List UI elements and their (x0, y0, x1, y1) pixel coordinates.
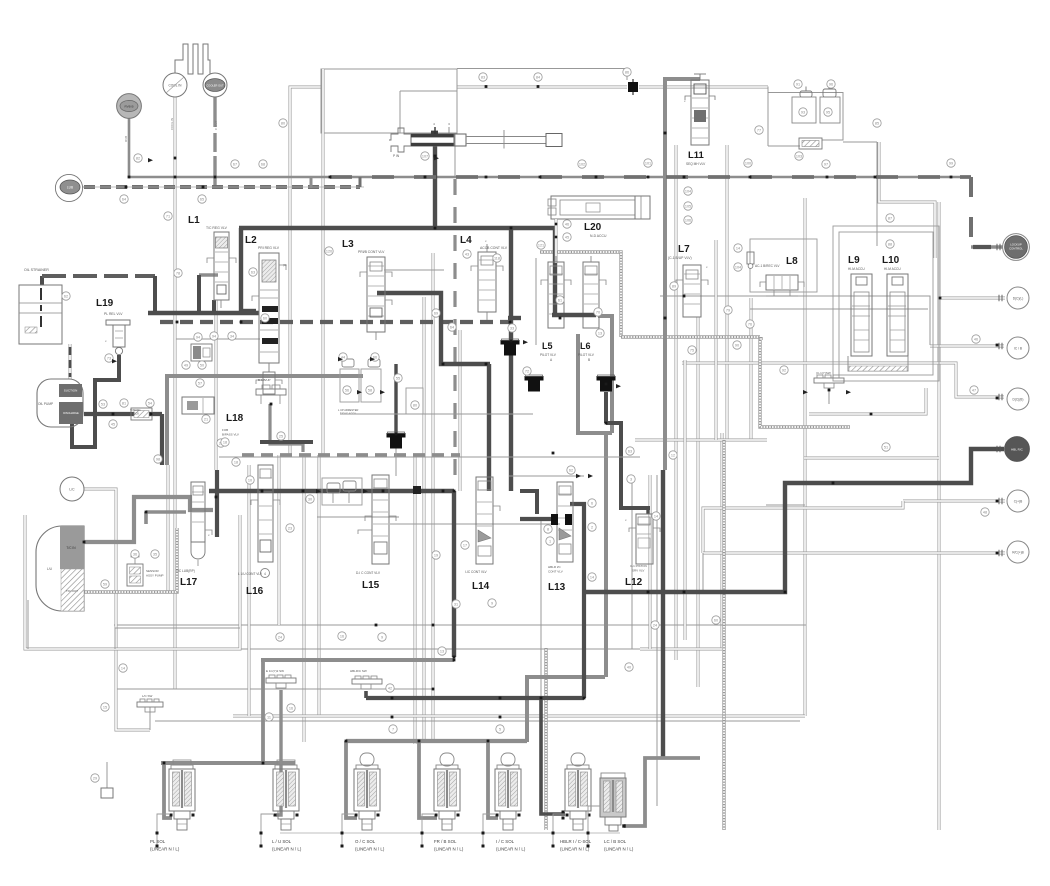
solenoid LC/B SOL (601, 773, 625, 778)
port D(C)(B) (1007, 388, 1029, 410)
svg-text:D(C)(B): D(C)(B) (1013, 398, 1024, 402)
svg-text:93: 93 (801, 111, 805, 115)
wire mid column x650 (649, 475, 652, 649)
svg-text:64: 64 (122, 198, 126, 202)
wire pilot gray vertical long (604, 433, 608, 677)
wire L11 right column (726, 145, 729, 440)
svg-text:103: 103 (796, 155, 802, 159)
svg-text:118: 118 (494, 257, 500, 261)
svg-text:RVB: RVB (124, 136, 128, 142)
accumulator L20 (551, 196, 650, 219)
svg-text:AC-1 B/REC VLV: AC-1 B/REC VLV (755, 264, 780, 268)
node port tick marks (996, 244, 998, 250)
svg-text:102: 102 (579, 163, 585, 167)
svg-text:85: 85 (875, 122, 879, 126)
svg-text:63: 63 (251, 271, 255, 275)
wire L9 feed from top right (876, 142, 878, 246)
wire center column B (423, 297, 426, 740)
svg-text:31: 31 (454, 603, 458, 607)
port C+B (1007, 490, 1029, 512)
wire bottom mid rail (117, 688, 433, 690)
wire T/C lower box (25, 515, 240, 649)
svg-text:46: 46 (565, 223, 569, 227)
svg-text:88: 88 (888, 243, 892, 247)
wire long bottom rail 2 (114, 624, 806, 626)
port LUB (55, 174, 82, 201)
svg-text:56: 56 (345, 389, 349, 393)
svg-text:L13: L13 (548, 582, 566, 593)
solenoid I/C SOL (501, 753, 515, 766)
wire HBL R/C main rail (584, 449, 1004, 592)
svg-text:10: 10 (248, 479, 252, 483)
svg-text:C(+)B: C(+)B (1014, 500, 1022, 504)
svg-text:13: 13 (440, 650, 444, 654)
svg-text:45: 45 (111, 423, 115, 427)
wire T/C secondary feed (146, 510, 186, 514)
wire pilot gray U bottom (576, 431, 612, 435)
svg-text:15: 15 (103, 706, 107, 710)
svg-text:78: 78 (176, 272, 180, 276)
svg-text:90: 90 (735, 344, 739, 348)
svg-text:2: 2 (591, 526, 593, 530)
wire T/C in feed (84, 497, 213, 542)
pump oil pump (37, 379, 83, 427)
svg-text:LUB: LUB (67, 186, 73, 190)
wire L/C circle line (84, 489, 150, 730)
svg-text:49: 49 (184, 364, 188, 368)
svg-text:14: 14 (590, 576, 594, 580)
svg-text:HBLR I/C: HBLR I/C (548, 565, 562, 569)
wire secondary reg dashed rail (160, 320, 510, 324)
node box upper-left of lockup relay (321, 69, 457, 133)
svg-text:PILOT VLV: PILOT VLV (578, 353, 595, 357)
wire D(C)(B) connector (682, 363, 1004, 397)
svg-text:4: 4 (264, 572, 266, 576)
wire lower-left rail (27, 600, 29, 649)
svg-text:100: 100 (745, 162, 751, 166)
wire L2 drain drop (197, 275, 201, 313)
wire right mid rail (809, 388, 926, 414)
cooler (175, 44, 210, 74)
wire L7 columns (675, 145, 678, 660)
node flow arrows (148, 158, 153, 162)
svg-text:11: 11 (267, 716, 271, 720)
svg-text:TOWING: TOWING (130, 408, 141, 412)
wire main pressure dark rail (239, 226, 555, 230)
svg-text:60: 60 (263, 317, 267, 321)
svg-text:83: 83 (481, 76, 485, 80)
port COOL IN (163, 73, 187, 97)
svg-text:82: 82 (136, 157, 140, 161)
wire line pressure drop (gray) (165, 374, 169, 465)
svg-text:14: 14 (121, 667, 125, 671)
valve L14 I-IC control (476, 477, 493, 564)
wire R/C+B connector (703, 552, 1005, 555)
svg-text:69: 69 (434, 312, 438, 316)
svg-text:79: 79 (726, 309, 730, 313)
plug L15 inlet (413, 486, 421, 494)
wire right enclosure edge (804, 198, 807, 716)
wire L16 top dark stub (260, 440, 313, 444)
svg-text:33: 33 (510, 327, 514, 331)
svg-text:77: 77 (757, 129, 761, 133)
svg-text:HI-M ACCU: HI-M ACCU (884, 267, 901, 271)
wire O/C sol drop (346, 741, 357, 818)
wire L1 drain (thick gray) (199, 273, 218, 277)
svg-text:62: 62 (64, 295, 68, 299)
svg-text:75: 75 (690, 349, 694, 353)
solenoid HBLR I/C-SOL (571, 753, 585, 766)
svg-text:60: 60 (714, 619, 718, 623)
svg-text:DISCHARGE: DISCHARGE (63, 411, 79, 415)
svg-text:71: 71 (166, 215, 170, 219)
wire LC/B staircase (gray) (624, 758, 700, 826)
wire mid column x685 (684, 360, 687, 640)
svg-text:43: 43 (465, 253, 469, 257)
svg-text:D(C)(L): D(C)(L) (1013, 297, 1024, 301)
svg-text:97: 97 (824, 163, 828, 167)
wire gray to sol bus elbow (527, 677, 605, 742)
wire pilot dark link (552, 313, 596, 317)
node L9/L10 enclosure inner (839, 232, 933, 375)
svg-text:6: 6 (591, 502, 593, 506)
wire L/C SW stem (149, 707, 151, 730)
svg-text:68: 68 (261, 163, 265, 167)
port COOLER OUT (203, 73, 227, 97)
svg-text:(3): (3) (283, 263, 287, 267)
svg-text:73: 73 (107, 357, 111, 361)
wire center column A (432, 253, 435, 742)
svg-text:HBL R/C: HBL R/C (1011, 448, 1024, 452)
svg-text:8: 8 (547, 528, 549, 532)
wire dark ladder right (553, 228, 557, 315)
wire lockup control connector (gray) (971, 245, 1003, 249)
wire HBLR SW stem (364, 691, 368, 698)
solenoid PL SOL (173, 760, 191, 765)
wire top supply line (290, 87, 321, 220)
node sensor assy pump (127, 564, 143, 586)
svg-text:(LINEAR N / L): (LINEAR N / L) (272, 847, 302, 852)
wire lockup relay valve drain (dark) (433, 146, 437, 228)
svg-text:18: 18 (234, 461, 238, 465)
wire sol area column (540, 520, 542, 698)
wire to top-right check valves (768, 87, 843, 141)
wire dark drop A (509, 228, 513, 491)
svg-text:L12: L12 (625, 577, 643, 588)
node accumulator sump tray (848, 356, 908, 371)
port I C/B (1007, 337, 1029, 359)
svg-text:46: 46 (974, 338, 978, 342)
svg-text:80: 80 (413, 404, 417, 408)
svg-text:99: 99 (949, 162, 953, 166)
svg-text:T/C REG VLV: T/C REG VLV (206, 226, 228, 230)
wire below plug P1 (395, 447, 397, 476)
svg-text:L6: L6 (580, 341, 591, 351)
svg-text:L20: L20 (584, 222, 602, 233)
wire hatched T/C out line (84, 528, 177, 592)
svg-text:62: 62 (569, 469, 573, 473)
wire L/U feed from gray elbow (261, 658, 265, 763)
svg-text:L14: L14 (472, 581, 490, 592)
wire cooler-in line (vertical) (174, 97, 177, 689)
wire hatched L8 column (759, 337, 762, 340)
svg-text:P IN: P IN (393, 154, 400, 158)
svg-text:L / U SOL: L / U SOL (272, 839, 292, 844)
wire E1C SW stem and L/U drop (276, 690, 281, 815)
svg-text:48: 48 (983, 511, 987, 515)
svg-text:SRV VLV: SRV VLV (632, 569, 644, 573)
wire mid thin rail y414 (340, 413, 533, 415)
valve L16 lockup control (258, 465, 273, 562)
valve L17 T/C lub (191, 482, 205, 542)
node L8 enclosure box (750, 239, 817, 292)
svg-text:L18: L18 (226, 413, 244, 424)
wire pri-reg column (303, 455, 306, 742)
wire L14 short dark (520, 491, 537, 514)
wire D(C)(L) connector (941, 297, 1005, 300)
svg-text:35: 35 (153, 553, 157, 557)
valve L1 T/C regulator (214, 232, 229, 300)
svg-text:92: 92 (782, 369, 786, 373)
wire solenoid supply bus left (161, 761, 295, 765)
svg-text:24: 24 (278, 636, 282, 640)
wire solenoid return rails (280, 832, 620, 834)
svg-text:CONT VLV: CONT VLV (548, 570, 563, 574)
wire right lower rail B (635, 439, 767, 442)
svg-text:L11: L11 (688, 150, 705, 161)
svg-text:17: 17 (463, 544, 467, 548)
svg-text:54: 54 (148, 402, 152, 406)
node check box 2 (820, 97, 840, 123)
svg-text:PL REL VLV: PL REL VLV (104, 312, 123, 316)
svg-text:L/C: L/C (69, 488, 75, 492)
svg-text:FOB: FOB (222, 428, 228, 432)
svg-text:104: 104 (735, 266, 741, 270)
svg-text:(LINEAR N / L): (LINEAR N / L) (604, 847, 634, 852)
plug top line (632, 79, 634, 95)
node L9/L10 enclosure outer (833, 226, 939, 381)
wire left box edge (289, 220, 292, 455)
wire rvb feed (128, 118, 131, 177)
wire bottom enclosure edge (233, 715, 805, 718)
wire C+B connector (903, 500, 1005, 503)
valve L2 lower plunger (263, 372, 275, 394)
valve L5 pilot A (548, 262, 564, 328)
wire PL sol drop (164, 763, 172, 818)
svg-text:O / C SOL: O / C SOL (355, 839, 376, 844)
valve L18 bypass (182, 397, 214, 414)
svg-text:101: 101 (645, 162, 651, 166)
wire L13 top feed (509, 475, 584, 477)
svg-text:T/C IN: T/C IN (66, 546, 76, 550)
svg-text:40: 40 (627, 666, 631, 670)
svg-text:9: 9 (491, 602, 493, 606)
svg-text:CHECK: CHECK (130, 412, 139, 416)
valve L6 pilot B (583, 262, 599, 328)
wire L1 drain drop (212, 300, 216, 313)
wire L8 output line (660, 296, 930, 345)
wire L17 column dark (215, 470, 219, 537)
svg-text:ACCB CONT VLV: ACCB CONT VLV (480, 246, 508, 250)
svg-text:120: 120 (326, 250, 332, 254)
port L/C (60, 477, 84, 501)
wire lube gallery jog (310, 177, 313, 188)
svg-text:3: 3 (630, 478, 632, 482)
wire lockup dashed drop right (969, 177, 973, 247)
svg-text:PL SOL: PL SOL (150, 839, 166, 844)
valve L18 check assembly (191, 344, 212, 361)
wire lockup signal dashed overlay (330, 175, 971, 179)
svg-text:L5: L5 (542, 341, 553, 351)
wire L7-L8 column (715, 240, 718, 440)
svg-text:12: 12 (671, 454, 675, 458)
valve U-lockup relay (411, 134, 454, 146)
wire far right tall column (938, 202, 941, 830)
svg-text:55: 55 (396, 377, 400, 381)
svg-text:COOLER OUT: COOLER OUT (206, 84, 224, 88)
svg-text:C-1 PISTON: C-1 PISTON (630, 564, 647, 568)
svg-text:L19: L19 (96, 298, 114, 309)
wire lub dashed line (84, 185, 360, 189)
wire pilot gray elbow from L6 (598, 316, 612, 433)
wire strainer suction dashed (40, 276, 44, 285)
svg-text:51: 51 (884, 446, 888, 450)
svg-text:L3: L3 (342, 239, 354, 250)
svg-text:104: 104 (685, 190, 691, 194)
svg-text:R/C(+)B: R/C(+)B (1012, 551, 1024, 555)
valve L8 AC-1 B/REC (766, 275, 798, 290)
wire long bottom rail 3 (155, 720, 800, 722)
svg-text:T/C LUB(RP): T/C LUB(RP) (176, 569, 195, 573)
svg-text:COOL IN: COOL IN (170, 118, 174, 130)
wire center column C (414, 455, 417, 744)
wire L20 drain stub (555, 219, 558, 263)
svg-text:PRI REG VLV: PRI REG VLV (258, 246, 280, 250)
svg-text:70: 70 (596, 311, 600, 315)
svg-text:L2: L2 (245, 235, 257, 246)
node arrester box A (340, 369, 359, 402)
solenoid L/U SOL (277, 760, 295, 765)
svg-text:(LINEAR N / L): (LINEAR N / L) (496, 847, 526, 852)
valve L7 C-1 backup (683, 265, 701, 317)
wire T/C side line (167, 465, 170, 592)
plug P4 (597, 376, 616, 381)
svg-text:89: 89 (672, 285, 676, 289)
svg-text:I / C SOL: I / C SOL (496, 839, 515, 844)
svg-text:FR / B SOL: FR / B SOL (434, 839, 457, 844)
wire pilot gray U left (576, 334, 580, 433)
wire hatched bottom column (544, 648, 547, 830)
wire plug stem (394, 364, 397, 434)
svg-text:53: 53 (101, 403, 105, 407)
node check box 1 (792, 97, 816, 123)
node junction dots (174, 176, 177, 179)
valve L3 pri/b control (367, 257, 385, 332)
valve L2 primary regulator (259, 253, 279, 363)
valve L12 C-1 piston servo (636, 514, 653, 564)
svg-text:9: 9 (381, 636, 383, 640)
wire pump discharge rail (84, 412, 162, 416)
wire accumulator back-up column (dark lower) (661, 470, 665, 758)
svg-text:PRI/B CONT VLV: PRI/B CONT VLV (358, 250, 385, 254)
plug P2 (501, 340, 520, 345)
node small check box (406, 388, 423, 414)
valve L15 D-I C control (372, 475, 389, 564)
wire under relay valve (454, 133, 456, 176)
wire L9/L10 top link (879, 142, 935, 258)
svg-text:106: 106 (685, 219, 691, 223)
wire L3 top link (384, 269, 444, 271)
wire hatched main spanning line (621, 335, 760, 338)
node numbered hex markers (134, 154, 142, 162)
wire lube gallery (gray horizontal) (129, 176, 971, 179)
solenoid FR/B SOL (440, 753, 454, 766)
wire gray dashed vertical from pilot line (453, 179, 456, 487)
svg-text:B-1 B/UP: B-1 B/UP (258, 378, 271, 382)
svg-text:OIL STRAINER: OIL STRAINER (24, 268, 49, 272)
svg-text:T/C OUT: T/C OUT (66, 589, 78, 593)
svg-text:(LINEAR N / L): (LINEAR N / L) (560, 847, 590, 852)
wire gray dashed mid rail (242, 453, 460, 457)
svg-text:24: 24 (653, 624, 657, 628)
port HBL R/C (1005, 437, 1030, 462)
svg-text:105: 105 (685, 205, 691, 209)
svg-text:(C-1 B/UP VLV): (C-1 B/UP VLV) (668, 256, 692, 260)
svg-text:91: 91 (796, 83, 800, 87)
svg-text:HI-M ACCU: HI-M ACCU (848, 267, 865, 271)
valve L4 acc control (478, 252, 496, 312)
svg-text:25: 25 (279, 435, 283, 439)
svg-text:SUCTION: SUCTION (64, 389, 78, 393)
wire L14 drop line (459, 330, 462, 491)
wire hatched pilot line upper (540, 252, 621, 337)
svg-text:PILOT VLV: PILOT VLV (540, 353, 557, 357)
node arrester box B (361, 369, 381, 402)
wire L18 underline (176, 338, 260, 340)
op check valve top-right 2 (823, 89, 836, 97)
wire pump-strainer link (69, 344, 72, 379)
port D(C)(L) (1007, 287, 1029, 309)
svg-text:E 1C(Y)2 SW: E 1C(Y)2 SW (266, 669, 284, 673)
svg-text:96: 96 (829, 83, 833, 87)
node torque converter (36, 526, 84, 611)
svg-text:ASSY PUMP: ASSY PUMP (146, 574, 163, 578)
svg-text:14: 14 (736, 247, 740, 251)
svg-text:L10: L10 (882, 255, 900, 266)
wire L15 side line (317, 516, 399, 518)
svg-text:72: 72 (525, 370, 529, 374)
wire solenoid supply bus right (346, 739, 527, 743)
svg-text:D-I C CONT VLV: D-I C CONT VLV (356, 571, 381, 575)
svg-text:COOL IN: COOL IN (169, 84, 183, 88)
svg-text:86: 86 (625, 71, 629, 75)
svg-text:L8: L8 (786, 256, 798, 267)
svg-text:42: 42 (388, 687, 392, 691)
wire L13 plug rail (520, 517, 557, 521)
svg-text:1: 1 (549, 540, 551, 544)
svg-text:(LINEAR N / L): (LINEAR N / L) (355, 847, 385, 852)
plug P3 (525, 376, 544, 381)
svg-text:121: 121 (538, 244, 544, 248)
solenoid O/C SOL (360, 753, 374, 766)
wire L16 column (248, 465, 251, 716)
svg-text:21: 21 (204, 418, 208, 422)
svg-text:B/PASS VLV: B/PASS VLV (222, 433, 239, 437)
svg-text:84: 84 (536, 76, 540, 80)
svg-text:58: 58 (368, 389, 372, 393)
svg-text:14: 14 (654, 515, 658, 519)
svg-text:5: 5 (499, 728, 501, 732)
